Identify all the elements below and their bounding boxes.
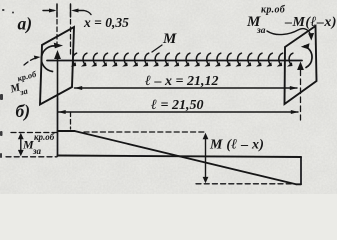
dimension line l = 21,50: [58, 111, 298, 113]
svg-text:а): а): [18, 14, 33, 34]
svg-text:за: за: [32, 146, 42, 156]
right support arc arrowhead: [301, 43, 310, 49]
right reaction arrow up on axis: [297, 62, 304, 71]
svg-text:M (ℓ – x): M (ℓ – x): [209, 138, 264, 153]
torque diagram top edge: [58, 130, 75, 132]
dimension x: leader to text: [78, 11, 91, 15]
svg-text:б): б): [16, 101, 31, 121]
svg-text:x = 0,35: x = 0,35: [83, 15, 129, 30]
left support moment arc: [41, 46, 56, 72]
torque diagram zero baseline: [58, 156, 302, 158]
left value bottom arrowhead: [18, 150, 24, 156]
middle dimension top arrowhead: [203, 133, 209, 139]
dashed level line of negative value: [196, 183, 294, 185]
right support moment arc: [305, 46, 313, 68]
torque diagram bottom right corner: [296, 183, 301, 185]
left wall plate: [40, 27, 74, 105]
torque diagram diagonal: [75, 131, 297, 184]
svg-text:кр.об: кр.об: [34, 132, 55, 142]
right top label M_za^kr.ob - M(l-x): [246, 5, 337, 37]
left support arc arrowhead: [54, 43, 63, 49]
dashed level line left of ordinate: [11, 132, 57, 134]
dashed leader from label to plate: [24, 58, 37, 65]
distributed moment arrowheads: [71, 62, 293, 66]
shaft axis: [47, 60, 302, 62]
middle dimension bottom arrowhead: [203, 177, 209, 183]
svg-text:M: M: [162, 31, 177, 47]
svg-text:–M(ℓ–x): –M(ℓ–x): [284, 15, 337, 30]
curved leader from label to right plate: [267, 29, 311, 37]
dashed baseline extension left: [6, 156, 57, 158]
torque diagram right ordinate: [300, 157, 302, 184]
scan specks at left edge: [0, 9, 14, 158]
left value top arrowhead: [18, 133, 24, 139]
dimension x: right arrowhead: [71, 9, 79, 13]
dash-dot axis line below right plate: [300, 70, 302, 120]
dimension x: left arrow line: [43, 10, 54, 12]
torque diagram left ordinate: [57, 99, 59, 156]
svg-text:ℓ = 21,50: ℓ = 21,50: [151, 98, 203, 113]
svg-text:за: за: [256, 26, 266, 36]
label M_za^kr.ob left: [6, 69, 42, 100]
svg-text:кр.об: кр.об: [261, 5, 286, 16]
label M_za^kr.ob on diagram: [22, 132, 55, 156]
middle dimension line M(l-x): [205, 136, 207, 180]
dashed construction line at load start: [70, 5, 72, 57]
dashed construction line at wall axis: [56, 5, 58, 47]
dimension x: tick 1: [56, 4, 58, 17]
svg-text:ℓ – x = 21,12: ℓ – x = 21,12: [145, 74, 218, 89]
leader from M to shaft: [152, 45, 162, 52]
dashed level line of positive value: [84, 131, 205, 133]
dimension x: tick 2: [70, 4, 72, 17]
dimension x: left arrowhead: [49, 9, 57, 13]
reaction arrow up on wall axis: [57, 57, 59, 99]
right wall plate: [285, 26, 317, 104]
left value dimension line: [20, 136, 22, 153]
dimension line l-x = 21,12: [75, 87, 298, 89]
distributed moment arrow stems: [73, 53, 293, 64]
dashed construction line above diagram: [70, 112, 72, 129]
